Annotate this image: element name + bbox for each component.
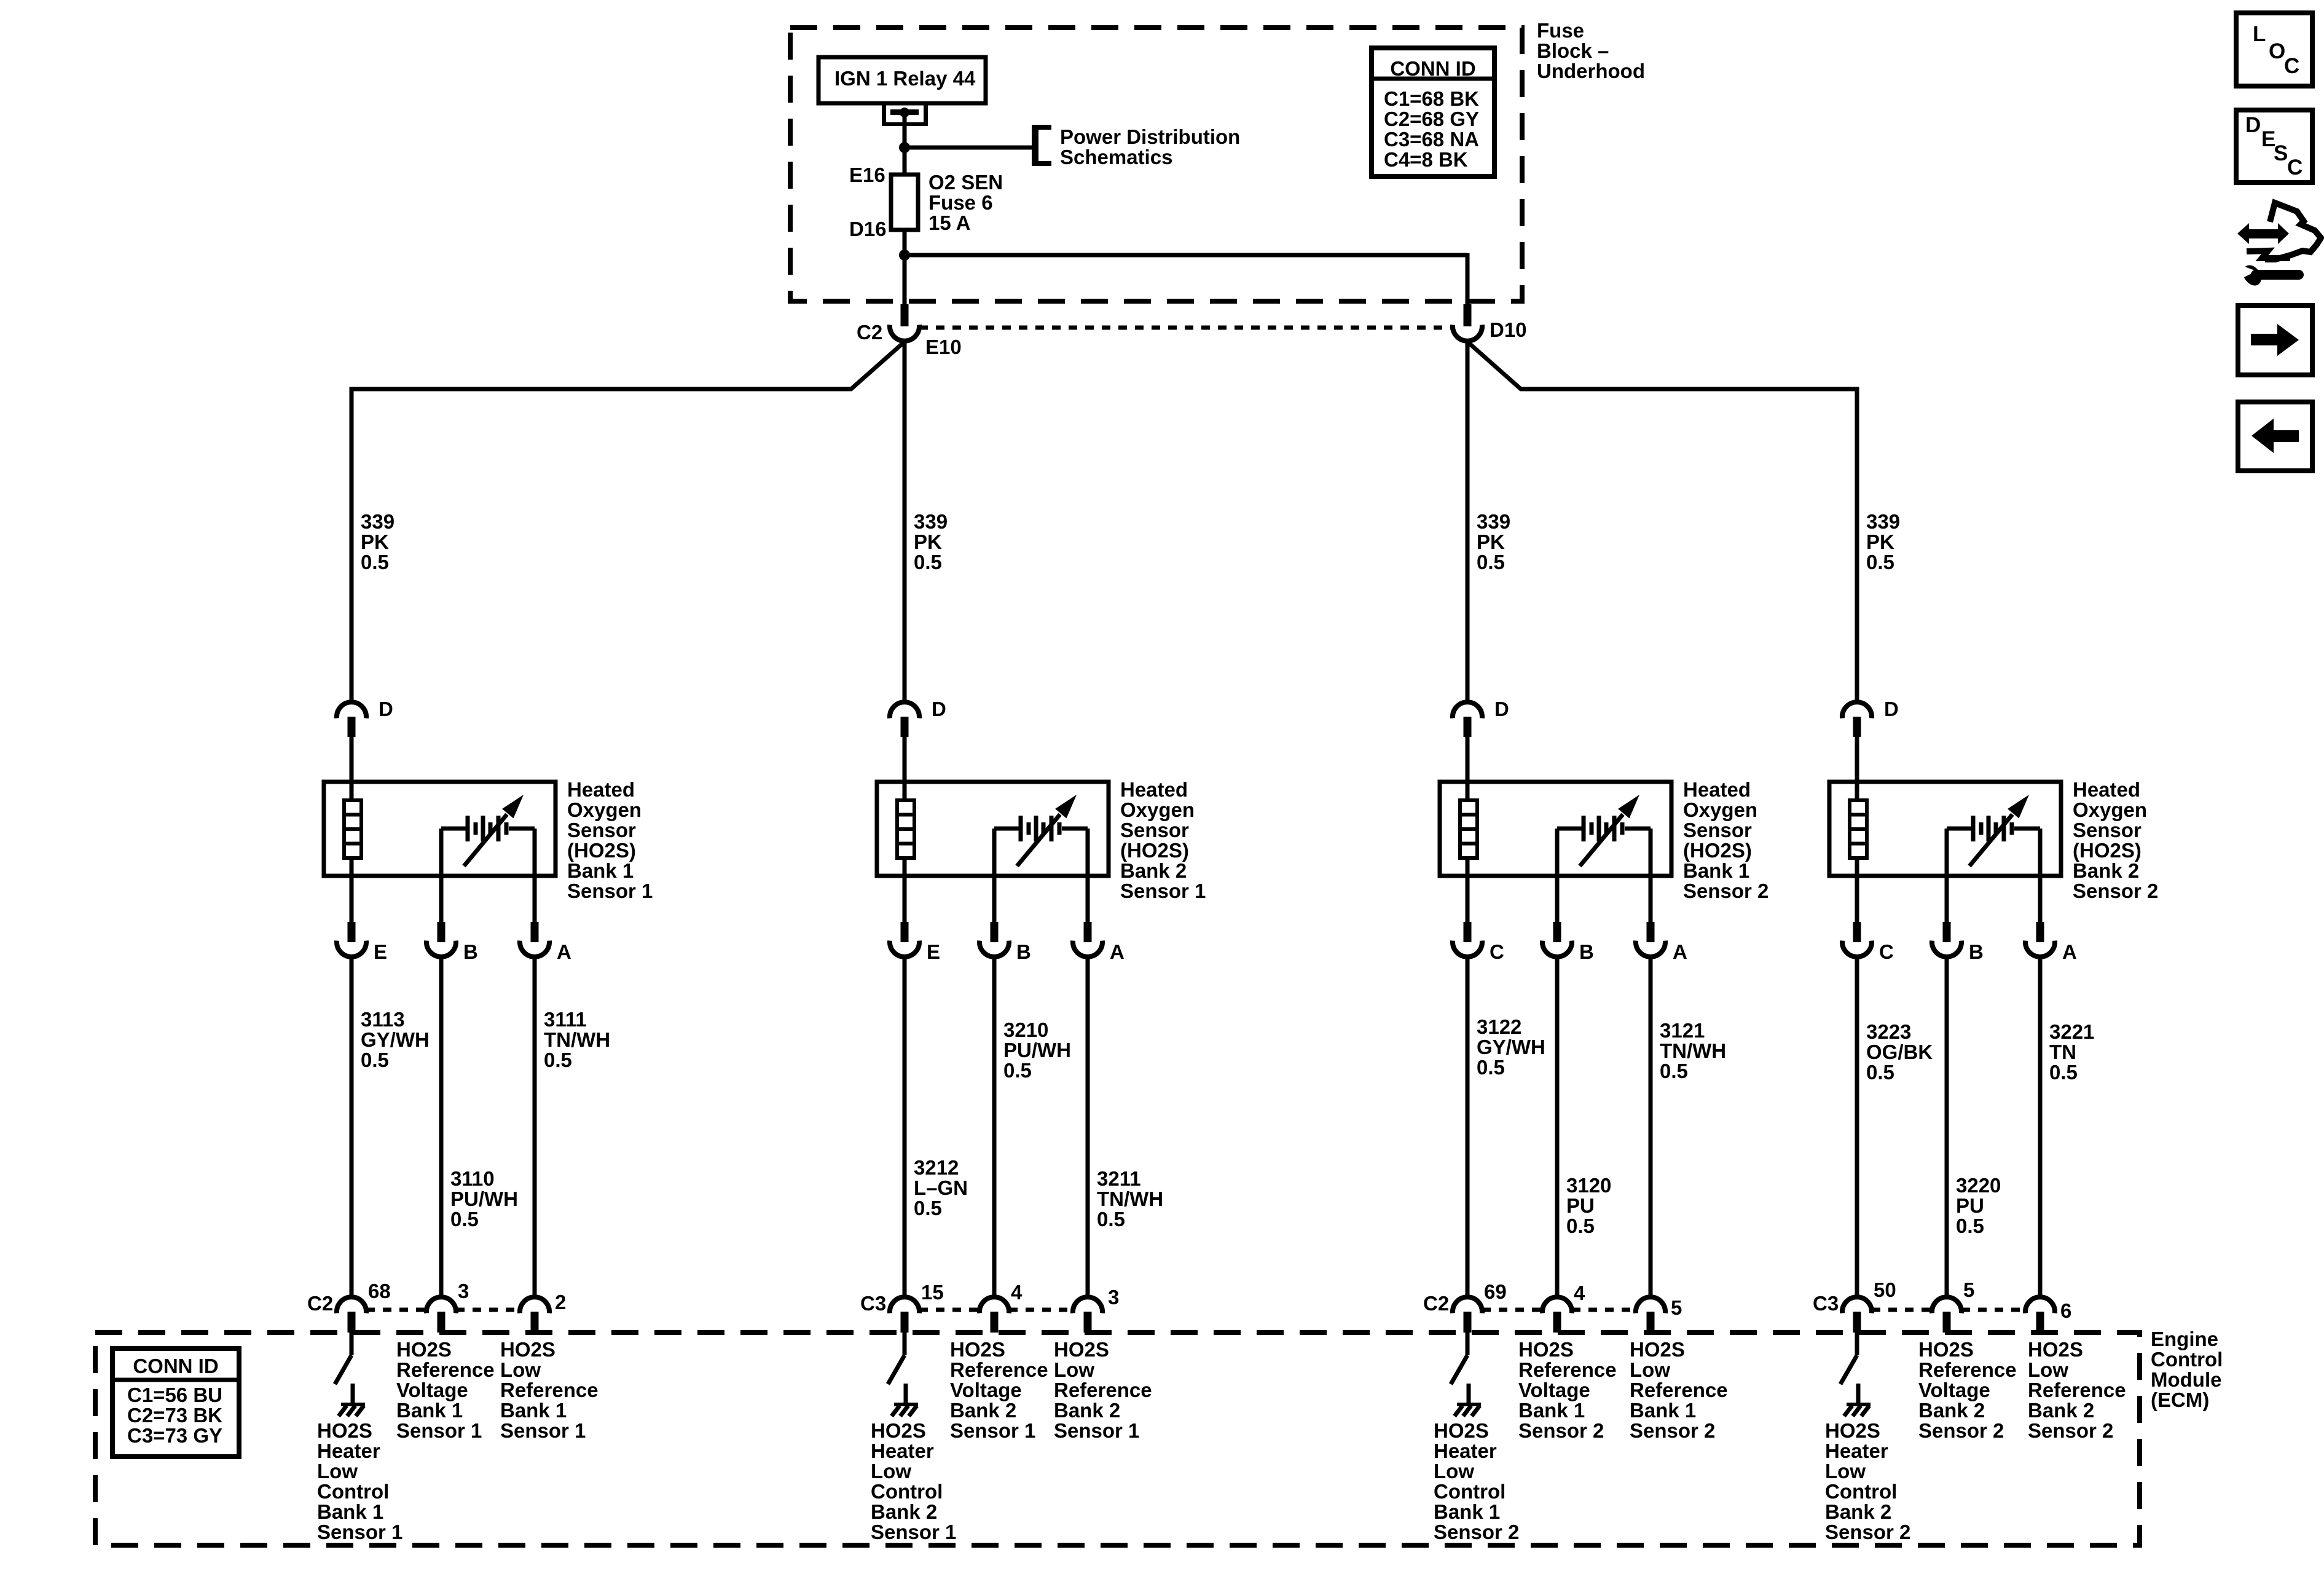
svg-text:A: A [1673,940,1687,963]
svg-text:B: B [463,940,478,963]
connector pin C of sensor column 4 [1842,922,1872,957]
pin label A column 4 [2062,940,2077,963]
svg-text:Bank 1: Bank 1 [1630,1399,1696,1422]
svg-text:(HO2S): (HO2S) [1683,839,1752,862]
svg-text:C: C [2284,54,2299,78]
svg-text:B: B [1579,940,1594,963]
junction node 2 [899,250,910,261]
wire pin E to ECM column 1 [350,956,354,1297]
svg-text:Bank 1: Bank 1 [1434,1500,1500,1523]
wire battery right to pin A column 4 [2038,829,2043,923]
heater element column 3 [1460,800,1477,858]
svg-text:69: 69 [1484,1280,1507,1303]
wire D10 to HO2S B2S2 branch [1467,342,1857,703]
svg-text:Sensor: Sensor [2073,819,2141,841]
svg-text:Engine: Engine [2151,1328,2218,1350]
svg-text:Control: Control [1825,1480,1897,1503]
pin number 4 column 3 [1574,1282,1585,1304]
heater driver switch column 1 [335,1333,351,1384]
svg-text:(HO2S): (HO2S) [567,839,636,862]
svg-text:E16: E16 [849,163,885,186]
pin number 69 column 3 [1484,1280,1507,1303]
svg-text:339: 339 [1477,510,1510,533]
svg-text:Oxygen: Oxygen [1683,798,1757,821]
svg-text:Sensor 2: Sensor 2 [1434,1521,1519,1543]
svg-text:C: C [2287,156,2302,179]
wire label 339 PK 0.5 column 1 [361,510,395,573]
heater driver switch column 4 [1840,1333,1857,1384]
ECM connector pin 3 column 1 [426,1297,456,1333]
svg-text:4: 4 [1574,1282,1585,1304]
svg-text:Sensor 1: Sensor 1 [396,1419,482,1442]
pin number 15 column 2 [921,1281,944,1304]
wire heater to pin E column 2 [903,858,907,923]
circuit 3210 label [1003,1018,1071,1082]
connector pin B of sensor column 2 [979,922,1009,957]
svg-text:C2=68 GY: C2=68 GY [1384,108,1479,130]
label HO2S heater low control Bank 2 Sensor 1 [871,1419,956,1543]
circuit 3221 label [2049,1020,2094,1084]
pin label D column 1 [379,698,393,720]
svg-text:Module: Module [2151,1368,2221,1391]
ECM connector pin 5 column 3 [1636,1297,1665,1333]
pin label B column 1 [463,940,478,963]
svg-text:L–GN: L–GN [914,1176,968,1199]
svg-text:Heater: Heater [1825,1439,1888,1462]
sensing cell variable battery column 1 [441,795,535,866]
dotted connector line ECM C2 column 3 [1482,1308,1636,1312]
svg-text:Bank 1: Bank 1 [567,859,634,882]
label Engine Control Module (ECM) [2151,1328,2223,1411]
relay K44 IGN 1 Relay 44 box [819,57,986,103]
svg-text:Control: Control [2151,1348,2223,1371]
wire junction 2 to D10 drop [905,253,1467,305]
svg-text:Low: Low [1825,1460,1866,1483]
svg-text:A: A [1110,940,1125,963]
wire pin A to ECM column 2 [1086,956,1090,1297]
pin number 4 column 2 [1011,1281,1023,1304]
sensing cell variable battery column 3 [1557,795,1651,866]
svg-text:Sensor 2: Sensor 2 [1630,1419,1715,1442]
svg-text:Heater: Heater [871,1439,934,1462]
label C2 [857,321,882,344]
svg-text:Bank 2: Bank 2 [1054,1399,1120,1422]
connector pin D of HO2S Bank 1 Sensor 1 [337,702,366,737]
circuit 3211 label [1097,1167,1163,1231]
sensing cell variable battery column 4 [1947,795,2040,866]
svg-text:0.5: 0.5 [450,1208,479,1231]
pin label A column 3 [1673,940,1687,963]
svg-text:TN: TN [2049,1041,2076,1063]
wire battery right to pin A column 2 [1086,829,1090,923]
svg-text:Voltage: Voltage [950,1379,1022,1401]
svg-text:D: D [379,698,393,720]
connector pin A of sensor column 2 [1073,922,1102,957]
svg-text:Bank 2: Bank 2 [2028,1399,2094,1422]
label C3 at ECM column 4 [1813,1292,1839,1315]
heater driver switch column 3 [1451,1333,1467,1384]
svg-text:Reference: Reference [950,1358,1048,1381]
svg-text:Reference: Reference [1054,1379,1152,1401]
svg-text:0.5: 0.5 [2049,1061,2078,1084]
wire pin C to ECM column 4 [1855,956,1859,1297]
svg-text:Reference: Reference [2028,1379,2126,1401]
svg-text:HO2S: HO2S [871,1419,926,1442]
label HO2S low reference Bank 1 Sensor 2 [1630,1338,1728,1442]
svg-text:HO2S: HO2S [1054,1338,1109,1361]
pin label A column 2 [1110,940,1125,963]
svg-text:HO2S: HO2S [500,1338,555,1361]
wire pin B to ECM column 3 [1555,956,1560,1297]
svg-text:Bank 2: Bank 2 [871,1500,937,1523]
ECM connector pin 5 column 4 [1932,1297,1961,1333]
pin label D column 3 [1494,698,1509,720]
svg-text:Block –: Block – [1537,39,1609,62]
svg-text:C3=68 NA: C3=68 NA [1384,128,1479,151]
svg-text:C3=73 GY: C3=73 GY [127,1424,222,1447]
svg-text:A: A [2062,940,2077,963]
svg-text:Sensor 2: Sensor 2 [1683,880,1769,902]
circuit 3121 label [1660,1019,1726,1082]
svg-text:HO2S: HO2S [1825,1419,1880,1442]
label E10 [925,336,962,358]
connector pin B of sensor column 4 [1932,922,1961,957]
icon jump to wiring schematic (wrench) [2237,203,2321,289]
svg-text:PK: PK [914,530,942,553]
label HO2S heater low control Bank 1 Sensor 2 [1434,1419,1519,1543]
svg-text:Sensor 1: Sensor 1 [567,880,653,902]
svg-text:3: 3 [1108,1286,1119,1309]
svg-text:Voltage: Voltage [1518,1379,1590,1401]
wire pin D into sensor box column 2 [903,737,907,800]
wire D10 down to HO2S B1S2 [1466,341,1470,703]
label D16 [849,218,887,240]
connector pin C of sensor column 3 [1453,922,1482,957]
svg-text:Oxygen: Oxygen [1120,798,1195,821]
svg-text:HO2S: HO2S [2028,1338,2083,1361]
svg-text:Reference: Reference [1630,1379,1728,1401]
pin number 5 column 4 [1963,1278,1974,1301]
fuse block underhood dashed box [790,28,1522,301]
svg-text:E: E [927,940,940,963]
svg-text:CONN ID: CONN ID [133,1355,218,1377]
wire junction to fuse [903,148,907,176]
svg-text:C3: C3 [860,1292,886,1315]
heated oxygen sensor U2 Bank 2 Sensor 1 box [877,782,1109,876]
conn id table fuse block underhood [1372,48,1494,176]
svg-text:Bank 2: Bank 2 [950,1399,1016,1422]
svg-text:0.5: 0.5 [1566,1215,1595,1237]
svg-text:Heated: Heated [567,778,635,801]
svg-text:PK: PK [1477,530,1505,553]
svg-text:0.5: 0.5 [1866,551,1894,573]
label heated oxygen sensor column 3 [1683,778,1769,902]
label HO2S reference voltage Bank 2 Sensor 1 [950,1338,1048,1442]
connector pin D of HO2S Bank 1 Sensor 2 [1453,702,1482,737]
svg-text:Sensor: Sensor [1120,819,1189,841]
svg-text:339: 339 [914,510,948,533]
svg-text:0.5: 0.5 [361,551,389,573]
wire heater to pin E column 4 [1855,858,1859,923]
wire E10 to HO2S B1S1 branch [351,342,905,703]
svg-text:3122: 3122 [1477,1015,1521,1038]
label C3 at ECM column 2 [860,1292,886,1315]
wire pin A to ECM column 3 [1649,956,1653,1297]
svg-text:Heated: Heated [1120,778,1188,801]
connector D10 at fuse block [1453,304,1482,341]
svg-text:D16: D16 [849,218,887,240]
svg-text:C2: C2 [1423,1292,1449,1315]
pin number 6 column 4 [2060,1299,2071,1322]
svg-text:Low: Low [2028,1358,2068,1381]
svg-text:3220: 3220 [1956,1174,2001,1197]
svg-text:TN/WH: TN/WH [544,1028,610,1051]
wire pin B to ECM column 1 [439,956,444,1297]
svg-text:0.5: 0.5 [914,551,942,573]
svg-text:Bank 1: Bank 1 [500,1399,567,1422]
svg-text:15: 15 [921,1281,944,1304]
circuit 3212 label [914,1156,968,1219]
wire pin D into sensor box column 3 [1466,737,1470,800]
svg-text:HO2S: HO2S [1630,1338,1685,1361]
wire battery left to pin B column 3 [1555,829,1560,923]
icon LOC box [2236,13,2312,86]
svg-text:Sensor 2: Sensor 2 [1518,1419,1604,1442]
connector pin E of sensor column 1 [337,922,366,957]
circuit 3120 label [1566,1174,1611,1237]
svg-text:E: E [374,940,387,963]
wire battery right to pin A column 3 [1649,829,1653,923]
label HO2S heater low control Bank 2 Sensor 2 [1825,1419,1910,1543]
svg-text:15 A: 15 A [928,211,970,234]
label Fuse Block - Underhood [1537,19,1645,82]
connector pin B of sensor column 1 [426,922,456,957]
svg-text:D10: D10 [1490,318,1527,341]
svg-text:Control: Control [317,1480,389,1503]
pin number 3 column 2 [1108,1286,1119,1309]
svg-text:Power Distribution: Power Distribution [1060,125,1240,148]
svg-text:Underhood: Underhood [1537,60,1645,82]
ECM connector pin 4 column 3 [1542,1297,1572,1333]
heated oxygen sensor U4 Bank 2 Sensor 2 box [1829,782,2061,876]
connector pin B of sensor column 3 [1542,922,1572,957]
wire battery left to pin B column 4 [1945,829,1949,923]
svg-text:0.5: 0.5 [914,1197,942,1219]
svg-text:Low: Low [1630,1358,1670,1381]
wire pin E to ECM column 2 [903,956,907,1297]
svg-text:HO2S: HO2S [950,1338,1005,1361]
wire heater to pin E column 1 [350,858,354,923]
dotted connector line ECM C2 column 1 [366,1308,520,1312]
svg-text:3: 3 [458,1280,469,1302]
svg-text:Sensor 2: Sensor 2 [2028,1419,2113,1442]
svg-text:Sensor: Sensor [567,819,636,841]
svg-text:Low: Low [500,1358,541,1381]
svg-text:A: A [557,940,571,963]
svg-text:Reference: Reference [396,1358,495,1381]
svg-text:Sensor 1: Sensor 1 [1054,1419,1139,1442]
circuit 3111 label [544,1008,610,1071]
svg-text:C3: C3 [1813,1292,1839,1315]
svg-text:C: C [1879,940,1894,963]
ECM connector pin 3 column 2 [1073,1297,1102,1333]
svg-text:C1=68 BK: C1=68 BK [1384,87,1479,110]
wire pin C to ECM column 3 [1466,956,1470,1297]
label HO2S reference voltage Bank 2 Sensor 2 [1918,1338,2017,1442]
ECM connector pin 15 column 2 [890,1297,919,1333]
pin label E column 1 [374,940,387,963]
wire relay to junction [903,115,907,149]
svg-text:68: 68 [368,1280,391,1302]
ECM connector pin 68 column 1 [337,1297,366,1333]
svg-text:GY/WH: GY/WH [361,1028,430,1051]
svg-text:3211: 3211 [1097,1167,1141,1190]
svg-text:Reference: Reference [500,1379,599,1401]
svg-text:Heated: Heated [1683,778,1751,801]
svg-text:0.5: 0.5 [361,1049,389,1071]
svg-text:C4=8 BK: C4=8 BK [1384,148,1468,171]
svg-text:PU: PU [1566,1194,1595,1217]
svg-text:HO2S: HO2S [1918,1338,1974,1361]
label D10 [1490,318,1527,341]
svg-text:D: D [1884,698,1899,720]
svg-text:3111: 3111 [544,1008,587,1031]
svg-text:0.5: 0.5 [1956,1215,1984,1237]
svg-text:GY/WH: GY/WH [1477,1036,1545,1058]
svg-text:Bank 1: Bank 1 [317,1500,383,1523]
wire label 339 PK 0.5 column 4 [1866,510,1900,573]
svg-text:5: 5 [1671,1296,1682,1319]
ground column 4 [1844,1384,1871,1416]
svg-text:0.5: 0.5 [1097,1208,1125,1231]
wire pin A to ECM column 4 [2038,956,2043,1297]
svg-text:Bank 1: Bank 1 [1683,859,1749,882]
circuit 3223 label [1866,1020,1933,1084]
svg-text:Sensor 1: Sensor 1 [950,1419,1035,1442]
svg-text:Heater: Heater [1434,1439,1497,1462]
svg-text:IGN 1 Relay 44: IGN 1 Relay 44 [834,67,976,90]
icon previous arrow box [2238,402,2312,471]
svg-text:Low: Low [1434,1460,1474,1483]
svg-text:3110: 3110 [450,1167,495,1190]
svg-text:3120: 3120 [1566,1174,1611,1197]
icon next arrow box [2238,305,2312,375]
svg-text:Bank 1: Bank 1 [396,1399,463,1422]
svg-text:Heated: Heated [2073,778,2140,801]
fuse F6 O2 SEN Fuse 6 15 A [891,171,1003,234]
svg-text:Bank 1: Bank 1 [1518,1399,1585,1422]
wire pin D into sensor box column 4 [1855,737,1859,800]
svg-text:50: 50 [1874,1278,1896,1301]
svg-text:Heater: Heater [317,1439,380,1462]
junction node [899,142,910,153]
circuit 3113 label [361,1008,430,1071]
svg-text:(HO2S): (HO2S) [1120,839,1189,862]
svg-text:TN/WH: TN/WH [1660,1039,1726,1062]
ECM connector pin 69 column 3 [1453,1297,1482,1333]
wire battery left to pin B column 2 [992,829,997,923]
svg-text:Fuse: Fuse [1537,19,1584,42]
svg-text:6: 6 [2060,1299,2071,1322]
ECM connector pin 2 column 1 [520,1297,549,1333]
svg-text:C1=56 BU: C1=56 BU [127,1384,222,1406]
wire E10 down to HO2S B2S1 [903,341,907,703]
connector pin A of sensor column 1 [520,922,549,957]
svg-text:Reference: Reference [1918,1358,2017,1381]
svg-text:D: D [1494,698,1509,720]
wire label 339 PK 0.5 column 2 [914,510,948,573]
connector pin A of sensor column 3 [1636,922,1665,957]
heated oxygen sensor U1 Bank 1 Sensor 1 box [324,782,555,876]
wire pin B to ECM column 4 [1945,956,1949,1297]
svg-text:0.5: 0.5 [1866,1061,1894,1084]
svg-text:5: 5 [1963,1278,1974,1301]
svg-text:Bank 2: Bank 2 [1825,1500,1891,1523]
svg-text:C2: C2 [857,321,882,344]
ECM connector pin 50 column 4 [1842,1297,1872,1333]
svg-text:Reference: Reference [1518,1358,1617,1381]
wire pin A to ECM column 1 [533,956,537,1297]
pin label B column 3 [1579,940,1594,963]
pin label D column 2 [932,698,946,720]
svg-text:Sensor: Sensor [1683,819,1752,841]
label heated oxygen sensor column 2 [1120,778,1206,902]
conn id table ECM [112,1349,239,1457]
svg-text:B: B [1969,940,1984,963]
svg-text:(HO2S): (HO2S) [2073,839,2141,862]
svg-text:PU: PU [1956,1194,1984,1217]
ground column 1 [339,1384,365,1416]
svg-text:Bank 2: Bank 2 [2073,859,2139,882]
engine control module dashed box [95,1333,2140,1545]
svg-text:0.5: 0.5 [544,1049,572,1071]
svg-text:3210: 3210 [1003,1018,1048,1041]
connector pin D of HO2S Bank 2 Sensor 1 [890,702,919,737]
svg-text:0.5: 0.5 [1660,1060,1688,1082]
svg-text:HO2S: HO2S [1434,1419,1489,1442]
svg-text:Sensor 1: Sensor 1 [871,1521,956,1543]
svg-text:3212: 3212 [914,1156,959,1179]
svg-text:4: 4 [1011,1281,1023,1304]
svg-text:PK: PK [361,530,389,553]
svg-text:HO2S: HO2S [1518,1338,1574,1361]
svg-text:Low: Low [317,1460,358,1483]
svg-text:Control: Control [871,1480,943,1503]
svg-text:339: 339 [1866,510,1900,533]
svg-text:0.5: 0.5 [1477,1056,1505,1079]
svg-text:L: L [2253,22,2266,46]
svg-text:O: O [2269,39,2285,63]
svg-text:C: C [1490,940,1504,963]
dotted connector line ECM C3 column 2 [919,1308,1073,1312]
svg-text:Oxygen: Oxygen [567,798,642,821]
connector pin A of sensor column 4 [2025,922,2055,957]
svg-text:0.5: 0.5 [1477,551,1505,573]
wire label 339 PK 0.5 column 3 [1477,510,1510,573]
svg-text:PK: PK [1866,530,1894,553]
heater driver switch column 2 [888,1333,905,1384]
label HO2S low reference Bank 1 Sensor 1 [500,1338,599,1442]
power distribution schematics tag [1032,125,1240,168]
pin number 2 column 1 [555,1291,566,1313]
svg-text:D: D [2245,113,2261,137]
pin label C column 3 [1490,940,1504,963]
ground column 3 [1454,1384,1481,1416]
connector pin D of HO2S Bank 2 Sensor 2 [1842,702,1872,737]
ground column 2 [892,1384,918,1416]
svg-text:Control: Control [1434,1480,1505,1503]
dotted connector line ECM C3 column 4 [1872,1308,2025,1312]
